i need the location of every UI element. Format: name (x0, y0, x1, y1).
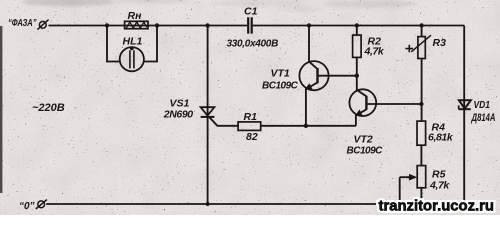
svg-text:4,7k: 4,7k (364, 46, 385, 58)
svg-text:tranzitor.ucoz.ru: tranzitor.ucoz.ru (379, 199, 495, 215)
svg-text:6,81k: 6,81k (428, 132, 454, 144)
svg-text:4,7k: 4,7k (429, 180, 450, 192)
svg-text:R3: R3 (433, 37, 447, 49)
svg-text:VD1: VD1 (474, 99, 491, 111)
svg-text:2N690: 2N690 (163, 108, 194, 120)
svg-text:VT2: VT2 (354, 133, 373, 145)
svg-text:HL1: HL1 (123, 36, 143, 48)
svg-text:330,0x400В: 330,0x400В (227, 39, 279, 50)
svg-text:“0”: “0” (19, 201, 35, 212)
svg-text:BC109C: BC109C (262, 81, 299, 92)
svg-text:BC109C: BC109C (347, 146, 384, 157)
svg-text:Д814А: Д814А (471, 112, 496, 124)
svg-text:“ФАЗА”: “ФАЗА” (8, 18, 37, 29)
svg-text:Rн: Rн (128, 10, 143, 22)
svg-text:VT1: VT1 (271, 67, 290, 79)
svg-text:~220В: ~220В (32, 102, 65, 114)
svg-text:82: 82 (246, 131, 258, 143)
svg-text:R1: R1 (244, 111, 258, 123)
svg-text:C1: C1 (244, 5, 258, 17)
